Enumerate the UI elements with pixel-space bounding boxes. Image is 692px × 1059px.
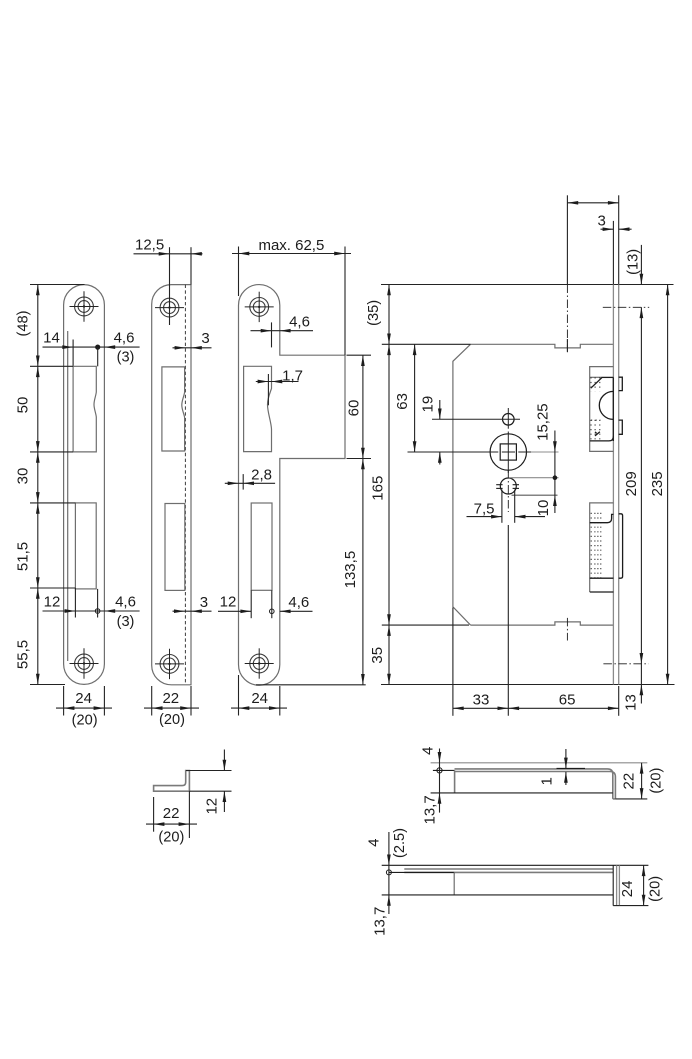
L-profile dim 22 (20) (153, 797, 155, 832)
follower v centerline (507, 432, 509, 473)
side view 2 dim 4 (2.5) / 13,7 (388, 832, 390, 895)
cylinder top tangent (509, 477, 559, 479)
side view 1 dim 22 (20) (615, 798, 647, 800)
plate 3 lower cutout (251, 503, 272, 590)
plate 3 dim 12 / 4,6 bottom (218, 610, 251, 612)
screw hole plate3 bottom (245, 648, 274, 678)
svg-text:max. 62,5: max. 62,5 (258, 237, 324, 254)
svg-text:4: 4 (419, 747, 436, 755)
latch bolt black details (590, 376, 601, 378)
svg-text:22: 22 (162, 690, 179, 707)
follower h centerline (408, 451, 499, 453)
plate 2 dim 3 top (173, 347, 212, 349)
svg-text:4,6: 4,6 (115, 593, 136, 610)
ext line lower cutout top (30, 502, 75, 504)
deadbolt chamber bottom (590, 591, 614, 593)
side view 2 dim 24 (20) (620, 905, 649, 907)
latch bolt arc (599, 391, 613, 419)
svg-text:13,7: 13,7 (371, 907, 388, 936)
latch small hook mark (595, 432, 600, 436)
svg-text:13,7: 13,7 (421, 795, 438, 824)
svg-text:165: 165 (369, 476, 386, 501)
bottom dims 33 / 65 (452, 608, 454, 716)
svg-text:33: 33 (473, 692, 490, 709)
latch hidden dotted lines upper (590, 377, 592, 391)
svg-text:51,5: 51,5 (14, 542, 31, 571)
side view 2 bottom line (382, 894, 614, 896)
screw hole plate2 top (155, 292, 184, 322)
svg-text:15,25: 15,25 (534, 403, 551, 441)
bottom centerline dash-dot (566, 618, 568, 641)
svg-text:22: 22 (621, 773, 638, 790)
svg-text:(3): (3) (117, 614, 135, 630)
cylinder side tick marks (496, 484, 502, 486)
svg-text:3: 3 (201, 330, 209, 347)
latch chamber box (590, 367, 614, 452)
svg-text:(48): (48) (15, 311, 31, 337)
svg-text:13: 13 (623, 694, 640, 711)
svg-text:(20): (20) (72, 713, 98, 729)
plate 3 width dim 24 (238, 675, 240, 716)
dim 7,5 (467, 516, 502, 518)
follower (spindle hub) (490, 434, 526, 470)
latch tab 2 (protruding) (619, 420, 623, 434)
side view 2: plate body (404, 868, 613, 870)
svg-text:3: 3 (598, 212, 606, 229)
cylinder hole (500, 478, 516, 494)
svg-text:12: 12 (44, 593, 61, 610)
side view 1 dim 4 / 13,7 (439, 749, 441, 793)
dim max. 62,5 (232, 253, 351, 255)
side view 2: top line (382, 864, 649, 866)
svg-text:7,5: 7,5 (474, 501, 495, 518)
plate 3 dim 2,8 (225, 482, 275, 484)
svg-text:3: 3 (200, 594, 208, 611)
side view 2 ref dot (386, 870, 391, 875)
ext plate3 bottom right (256, 684, 366, 686)
screw hole plate1 top (70, 291, 99, 321)
ext body bottom (382, 624, 469, 626)
svg-text:(20): (20) (648, 768, 664, 794)
deadbolt dotted hidden lines (590, 513, 592, 578)
cylinder centerline (507, 470, 509, 512)
svg-text:4,6: 4,6 (289, 313, 310, 330)
faceplate screw centerline top (603, 306, 649, 308)
plate 1 lip fold line (67, 331, 69, 661)
faceplate (forend) (612, 285, 614, 685)
ext flange top (347, 354, 372, 356)
side view 1: box left (433, 769, 455, 771)
strike plate 3 (with flange) outline (239, 285, 346, 686)
svg-text:35: 35 (369, 647, 386, 664)
svg-text:4: 4 (365, 839, 382, 847)
svg-text:14: 14 (43, 329, 60, 346)
plate 1 lower cutout (75, 503, 96, 589)
plate 1 dim 12 / 4,6 (3) bottom (43, 610, 140, 612)
ext body top (382, 343, 471, 345)
plate 3 latch line (1,7 ref) (267, 374, 269, 405)
deadbolt step line (590, 514, 614, 522)
plate 2 dim 12,5 top (134, 253, 203, 255)
side view 1: frame face line (431, 762, 648, 764)
L-profile (angle) outline (154, 771, 190, 792)
latch hidden dotted lines lower (590, 420, 592, 441)
side view 1 dim 1 (557, 767, 586, 769)
plate 3 right dim chain 60 / 133,5 (362, 355, 364, 685)
backset centerline (507, 525, 509, 716)
upper hole h line (432, 418, 520, 420)
lock body bottom edge with notch (471, 622, 614, 625)
plate 2 width dim 22 (20) (151, 686, 153, 716)
ext line top of plate 1 (30, 284, 85, 286)
svg-text:4,6: 4,6 (288, 594, 309, 611)
plate 3 dim 4,6 top (251, 330, 314, 332)
svg-text:1: 1 (539, 777, 556, 785)
deadbolt tab (protruding) (619, 514, 623, 578)
svg-text:50: 50 (14, 397, 31, 414)
side view 1 ref dot (437, 768, 442, 773)
screw hole plate1 bottom (70, 648, 99, 678)
svg-text:22: 22 (163, 805, 180, 822)
faceplate screw centerline bottom (603, 663, 648, 665)
svg-text:4,6: 4,6 (114, 329, 135, 346)
plate 1 dim 14 / 4,6 (3) top (43, 346, 140, 348)
svg-text:30: 30 (14, 468, 31, 485)
latch diagonal (591, 378, 602, 389)
plate 1 upper cutout (73, 366, 96, 452)
svg-text:1,7: 1,7 (282, 367, 303, 384)
ext line upper cutout bottom (30, 451, 73, 453)
plate 3 upper cutout (244, 366, 272, 451)
plate 2 dim 3 bottom (173, 610, 212, 612)
deadbolt body bottom (590, 577, 614, 579)
svg-text:(35): (35) (366, 300, 382, 326)
plate 1 left dimension chain (37, 285, 39, 685)
lock case top edge line (381, 284, 674, 286)
cylinder left ext (501, 490, 503, 523)
svg-text:(20): (20) (158, 829, 184, 845)
plate 2 upper cutout (162, 367, 185, 451)
svg-text:(3): (3) (117, 349, 135, 365)
svg-text:10: 10 (535, 500, 552, 517)
unlabeled top dim (566, 195, 568, 284)
svg-text:2,8: 2,8 (251, 466, 272, 483)
lock body outline (gray) (453, 344, 471, 625)
svg-text:63: 63 (394, 393, 411, 410)
svg-text:235: 235 (649, 471, 666, 496)
svg-text:12,5: 12,5 (135, 236, 164, 253)
screw hole plate2 bottom (155, 649, 184, 679)
left dim chain (35) 165 35 (388, 285, 390, 685)
side view 1: plate with bent lip (455, 769, 613, 799)
svg-text:(2.5): (2.5) (392, 828, 408, 858)
latch bottom edge (590, 437, 613, 441)
svg-text:24: 24 (75, 690, 92, 707)
dim 19 (439, 400, 441, 419)
dim 63 (414, 344, 416, 452)
svg-text:24: 24 (619, 881, 636, 898)
ref dot plate1 bottom (95, 609, 100, 614)
lock body top edge with notch (471, 344, 614, 348)
svg-text:65: 65 (559, 692, 576, 709)
latch tab 1 (protruding) (619, 377, 623, 390)
svg-text:12: 12 (220, 594, 237, 611)
svg-text:12: 12 (203, 798, 220, 815)
upper hole (503, 414, 515, 426)
svg-text:(20): (20) (159, 712, 185, 728)
ext line lower cutout bottom (30, 587, 75, 589)
cylinder bottom tangent (512, 494, 558, 496)
ext flange bottom (347, 458, 372, 460)
shared ref dot (553, 475, 558, 480)
ref dot plate3 bottom (270, 609, 275, 614)
dim 15,25 and 10 (554, 431, 556, 514)
svg-text:(13): (13) (625, 249, 641, 275)
svg-text:(20): (20) (647, 876, 663, 902)
dim 235 (667, 285, 669, 685)
svg-text:60: 60 (345, 400, 362, 417)
tick at 14 ref (72, 340, 74, 366)
lock case bottom edge line (381, 684, 675, 686)
L-profile dim 12 (186, 770, 232, 772)
strike plate 2 outline (152, 285, 191, 685)
plate 2 fold dashed line (184, 285, 186, 685)
screw hole plate3 top (245, 292, 274, 322)
plate 3 dim 1,7 (256, 381, 299, 383)
plate 1 width dim 24 (20) (63, 686, 65, 716)
svg-text:19: 19 (419, 396, 436, 413)
ext line bottom of plate 1 (30, 684, 65, 686)
plate 2 lower cutout (165, 504, 185, 591)
deadbolt chamber box (590, 503, 614, 592)
strike plate 1 outline (64, 285, 105, 685)
ext line upper cutout top (30, 365, 73, 367)
ref dot plate1 top (95, 345, 100, 350)
right dim chain (13) 209 13 (640, 245, 642, 285)
side view 1 bottom line (431, 792, 613, 794)
svg-text:24: 24 (251, 690, 268, 707)
dim 3 faceplate thickness (612, 221, 614, 285)
svg-text:133,5: 133,5 (342, 551, 359, 589)
svg-text:55,5: 55,5 (14, 640, 31, 669)
side view 2: faceplate end cap (612, 865, 614, 905)
svg-text:209: 209 (623, 471, 640, 496)
latch right edge (612, 377, 614, 441)
top centerline dash-dot (566, 285, 568, 353)
cylinder right ext (514, 490, 516, 523)
